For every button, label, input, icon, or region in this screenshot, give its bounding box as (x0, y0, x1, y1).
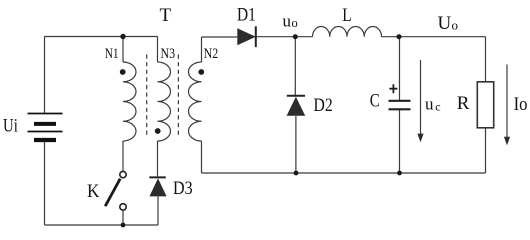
svg-text:C: C (370, 91, 380, 112)
svg-text:Io: Io (514, 94, 528, 115)
svg-text:u: u (425, 95, 434, 114)
svg-text:D2: D2 (314, 95, 333, 116)
svg-text:L: L (342, 5, 351, 26)
svg-text:N1: N1 (105, 46, 119, 62)
svg-text:N3: N3 (161, 46, 176, 62)
svg-text:Ui: Ui (3, 116, 18, 137)
svg-text:o: o (452, 18, 459, 33)
svg-text:R: R (457, 93, 470, 114)
svg-text:u: u (283, 12, 292, 31)
svg-text:U: U (438, 13, 452, 34)
svg-text:D1: D1 (237, 5, 256, 26)
svg-text:K: K (87, 181, 100, 202)
svg-text:T: T (160, 5, 172, 26)
svg-text:N2: N2 (204, 46, 219, 62)
svg-text:D3: D3 (173, 178, 193, 199)
svg-text:o: o (292, 16, 298, 30)
svg-text:c: c (435, 99, 440, 113)
